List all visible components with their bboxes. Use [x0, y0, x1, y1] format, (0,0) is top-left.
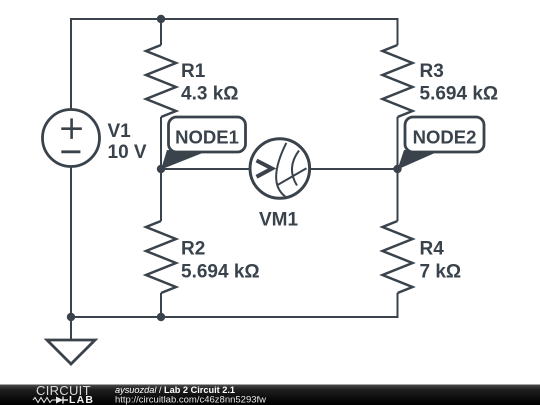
- voltmeter VM1: [250, 139, 310, 199]
- resistor R1: [146, 45, 176, 117]
- resistor R3: [383, 45, 413, 117]
- wire left vertical (top node to V1 plus): [70, 18, 72, 110]
- wire R2 top lead from node 1: [160, 169, 162, 221]
- label V1 value: [108, 121, 147, 163]
- node junction ground left: [67, 313, 75, 321]
- svg-text:http://circuitlab.com/c46z8nn5: http://circuitlab.com/c46z8nn5293fw: [115, 395, 266, 405]
- wire R1 bottom lead to node 1: [160, 117, 162, 169]
- svg-text:aysuozdal / Lab 2 Circuit 2.1: aysuozdal / Lab 2 Circuit 2.1: [115, 385, 235, 395]
- footer bar: [0, 385, 540, 405]
- node junction NODE2: [393, 165, 401, 173]
- label R2 value: [181, 239, 260, 283]
- wire R3 bottom lead to node 2: [397, 117, 399, 169]
- node flag NODE1: [161, 117, 246, 170]
- wire R4 top lead from node 2: [397, 169, 399, 221]
- node junction top: [157, 15, 165, 23]
- wire voltmeter right to node 2: [310, 168, 398, 170]
- svg-text:VM1: VM1: [259, 210, 299, 231]
- svg-text:NODE1: NODE1: [175, 127, 239, 148]
- resistor R4: [383, 221, 413, 293]
- wire R1 top lead: [160, 19, 162, 45]
- svg-text:10 V: 10 V: [108, 142, 147, 163]
- svg-text:NODE2: NODE2: [413, 127, 477, 148]
- wire R3 top lead: [397, 18, 399, 45]
- wire R2 bottom lead: [160, 293, 162, 317]
- wire V1 minus to ground node: [70, 166, 72, 317]
- wire R4 bottom lead: [397, 293, 399, 318]
- resistor R2: [146, 221, 176, 293]
- wire top horizontal: [71, 18, 398, 20]
- label R4 value: [420, 239, 462, 283]
- svg-text:R4: R4: [420, 239, 445, 260]
- voltage source V1: [43, 110, 100, 167]
- node junction NODE1: [157, 165, 165, 173]
- footer logo resistor squiggle: [33, 398, 56, 403]
- svg-text:R3: R3: [420, 61, 444, 82]
- wire ground lead: [70, 317, 72, 340]
- svg-text:5.694 kΩ: 5.694 kΩ: [420, 84, 499, 105]
- node flag NODE2: [398, 117, 485, 170]
- label R1 value: [181, 61, 239, 105]
- svg-text:R2: R2: [181, 239, 205, 260]
- wire bottom horizontal: [71, 316, 398, 318]
- svg-text:5.694 kΩ: 5.694 kΩ: [181, 262, 260, 283]
- footer logo diode: [56, 397, 63, 404]
- ground: [47, 340, 95, 364]
- svg-text:V1: V1: [108, 121, 132, 142]
- svg-text:4.3 kΩ: 4.3 kΩ: [181, 84, 239, 105]
- svg-text:R1: R1: [181, 61, 206, 82]
- wire node 1 to voltmeter left: [161, 168, 250, 170]
- svg-text:7 kΩ: 7 kΩ: [420, 262, 462, 283]
- svg-text:LAB: LAB: [69, 394, 94, 405]
- node junction bottom R2: [157, 313, 165, 321]
- label R3 value: [420, 61, 499, 105]
